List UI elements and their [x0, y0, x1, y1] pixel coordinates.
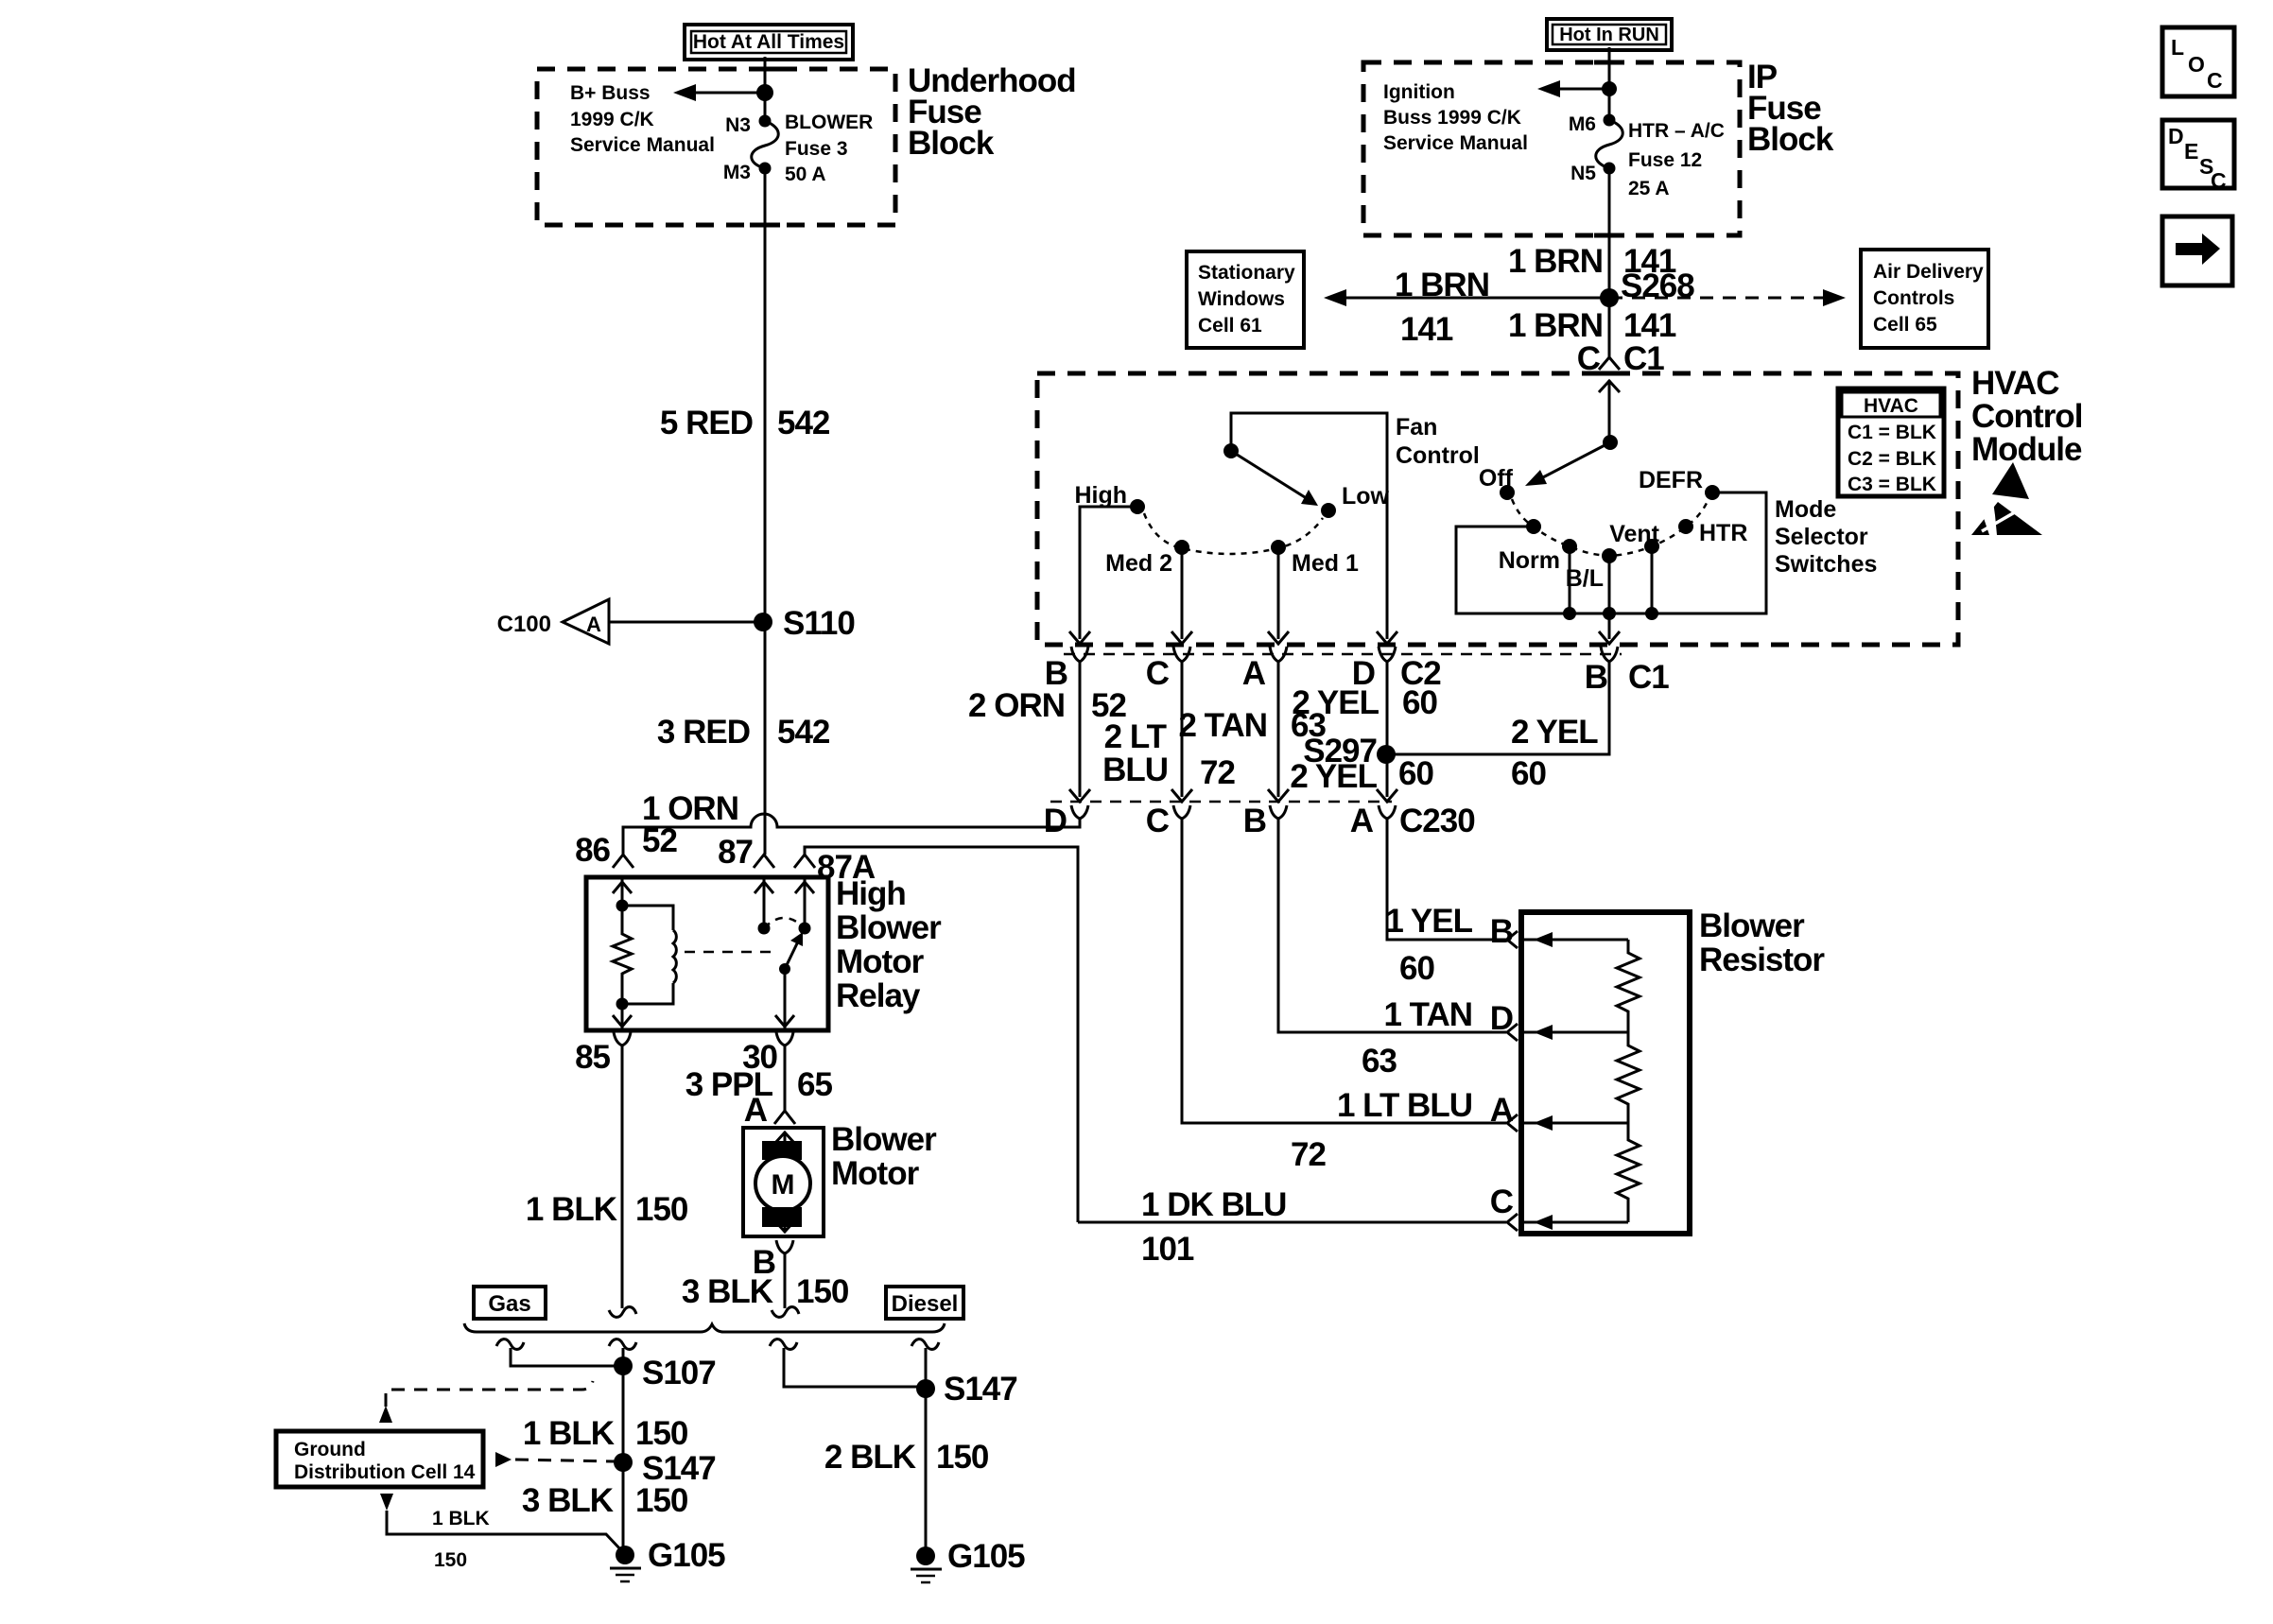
wire 3 BLK 150 motor B down [682, 1253, 849, 1310]
relay actuation dashed link [685, 951, 773, 954]
label Mode Selector Switches [1775, 496, 1877, 578]
resistor element R1 [1617, 940, 1640, 1032]
wire diesel right to S147 [925, 1348, 928, 1389]
splice S107 [614, 1355, 716, 1391]
svg-text:Fan: Fan [1396, 414, 1437, 441]
wire Vent drop [1645, 546, 1658, 620]
svg-text:C: C [2211, 168, 2227, 193]
pin B C1 label [1585, 647, 1670, 696]
svg-text:60: 60 [1511, 755, 1546, 792]
svg-text:2 YEL: 2 YEL [1290, 758, 1377, 795]
svg-text:Control: Control [1396, 442, 1480, 469]
pin C blower resistor [1490, 1183, 1518, 1231]
node Hot At All Times [685, 25, 853, 60]
relay internal resistor [613, 906, 632, 1004]
svg-text:1 YEL: 1 YEL [1385, 903, 1472, 940]
wire Med 1 to pin A [1277, 547, 1280, 639]
svg-text:A: A [1350, 803, 1374, 839]
svg-text:B+ Buss: B+ Buss [570, 82, 651, 104]
node Diesel tag [886, 1287, 963, 1319]
wire run feed into IP fuse block [1608, 47, 1611, 89]
svg-text:1 BLK: 1 BLK [523, 1415, 615, 1452]
svg-text:Blower: Blower [836, 909, 942, 946]
pin D C2 label [1352, 647, 1442, 692]
svg-text:High: High [836, 875, 906, 912]
fan switch detent dashed arc [1144, 513, 1323, 554]
svg-text:1 BLK: 1 BLK [526, 1191, 617, 1228]
svg-text:63: 63 [1362, 1043, 1397, 1080]
svg-text:Fuse 3: Fuse 3 [785, 138, 848, 160]
mode contact rect tap [1526, 519, 1541, 534]
resistor internal feed C [1521, 1215, 1628, 1230]
svg-text:Cell 61: Cell 61 [1198, 315, 1262, 337]
resistor element R3 [1617, 1123, 1640, 1222]
wire break hook diesel left [770, 1339, 797, 1350]
mode switch detent dashed arc [1512, 499, 1709, 556]
svg-text:Hot In RUN: Hot In RUN [1559, 25, 1659, 45]
svg-text:Control: Control [1971, 398, 2082, 435]
svg-text:86: 86 [575, 832, 610, 869]
svg-text:N3: N3 [725, 114, 751, 136]
svg-text:M3: M3 [723, 162, 751, 183]
relay coil branch wire 86 side [613, 877, 632, 912]
wire 3 PPL 65 relay 30 to blower motor A [685, 1045, 833, 1111]
svg-text:1 BRN: 1 BRN [1508, 307, 1603, 344]
svg-text:Fuse 12: Fuse 12 [1628, 149, 1702, 171]
splice S110 [754, 605, 855, 642]
svg-text:65: 65 [797, 1066, 832, 1103]
label High Blower Motor Relay [836, 875, 942, 1014]
splice S147 diesel [916, 1371, 1017, 1408]
fan contact High [1074, 482, 1145, 514]
svg-text:1 DK BLU: 1 DK BLU [1141, 1186, 1286, 1223]
pin B C2 [1045, 647, 1088, 692]
wire High to pin B [1080, 507, 1137, 639]
svg-text:DEFR: DEFR [1639, 467, 1703, 493]
wire 2 YEL 60 fan control [1292, 662, 1437, 797]
pin 87A [794, 849, 876, 886]
svg-text:Ignition: Ignition [1383, 81, 1455, 103]
fan switch wiper arm [1231, 451, 1318, 506]
wire 1 BRN 141 fuse to S268 [1508, 168, 1676, 298]
splice S147 gas [614, 1450, 716, 1487]
wire 2 ORN 52 [968, 662, 1126, 797]
wire junction to fuse terminal M6 [1608, 89, 1611, 120]
svg-text:B: B [1585, 659, 1607, 696]
ESD sensitive symbol [1971, 462, 2042, 535]
wire break hook motor B end [772, 1307, 799, 1318]
svg-text:E: E [2184, 139, 2198, 164]
svg-text:Norm: Norm [1499, 547, 1560, 574]
svg-text:D: D [1044, 803, 1067, 839]
junction at fuse 3 input [756, 84, 773, 101]
legend next arrow box [2162, 216, 2232, 285]
svg-text:Cell 65: Cell 65 [1873, 314, 1937, 336]
brace gas diesel split [464, 1323, 945, 1332]
wire break hook gas right [609, 1339, 636, 1350]
pin D C230 [1044, 803, 1088, 839]
svg-text:C1: C1 [1628, 659, 1669, 696]
svg-text:Distribution Cell 14: Distribution Cell 14 [294, 1461, 476, 1483]
svg-text:C: C [1146, 655, 1170, 692]
node B+ Buss arrow [570, 82, 765, 156]
svg-text:1 LT BLU: 1 LT BLU [1337, 1087, 1472, 1124]
connector C C1 inline [1577, 336, 1665, 442]
pin A blower motor [744, 1092, 795, 1129]
svg-text:Service Manual: Service Manual [570, 134, 715, 156]
svg-text:60: 60 [1402, 684, 1437, 721]
wire 1 BLK 150 ground cell to G105 [387, 1508, 622, 1571]
svg-text:Air Delivery: Air Delivery [1873, 261, 1984, 283]
label HVAC Control Module [1971, 365, 2082, 468]
splice S268 [1600, 268, 1694, 307]
mode contact HTR [1678, 519, 1747, 546]
svg-text:Resistor: Resistor [1699, 942, 1825, 978]
IP fuse block dashed box [1363, 62, 1740, 235]
pin 86 [575, 832, 633, 869]
relay coil L1 [622, 906, 676, 1004]
svg-text:542: 542 [777, 714, 830, 751]
pin A C230 label [1350, 803, 1475, 839]
mode contact B/L [1566, 548, 1617, 592]
svg-text:M6: M6 [1569, 113, 1596, 135]
svg-text:D: D [2168, 124, 2184, 148]
HVAC control module dashed box [1037, 373, 1958, 645]
wire B/L common to pin B [1599, 556, 1620, 644]
motor M1 Blower Motor [743, 1128, 824, 1236]
pin B C230 [1243, 803, 1287, 839]
connector C2 dashed row [1064, 653, 1622, 656]
wire 1 LT BLU 72 C230-C to resistor A [1182, 819, 1506, 1173]
label Blower Motor [831, 1121, 937, 1192]
wire 2 YEL 60 S297 to C1-B [1386, 662, 1609, 792]
pin D blower resistor [1490, 1000, 1518, 1041]
svg-text:2 YEL: 2 YEL [1511, 714, 1598, 751]
svg-text:141: 141 [1623, 307, 1676, 344]
wire 2 TAN 63 [1178, 662, 1326, 797]
fan control feed wire from C2-D [1231, 413, 1387, 639]
mode selector feed wire [1608, 392, 1611, 442]
wire break hook gas left [496, 1339, 524, 1350]
ground G105 diesel [911, 1538, 1025, 1582]
ground distribution dashed ref to S147 [495, 1452, 615, 1467]
svg-text:A: A [586, 613, 601, 636]
svg-text:542: 542 [777, 405, 830, 441]
svg-text:Blower: Blower [831, 1121, 937, 1158]
svg-text:150: 150 [635, 1191, 688, 1228]
arrows at HVAC box bottom fan side [1069, 631, 1397, 644]
svg-text:Module: Module [1971, 431, 2082, 468]
svg-text:Med 2: Med 2 [1105, 550, 1172, 577]
svg-text:N5: N5 [1570, 163, 1596, 184]
label Blower Resistor [1699, 907, 1825, 978]
relay contact 87A stub [795, 877, 814, 935]
wire 1 BRN 141 S268 to C1 [1508, 298, 1676, 354]
arrows into C230 [1069, 789, 1397, 802]
wire junction to fuse terminal N3 [764, 93, 767, 121]
connector C230 dashed row [1050, 801, 1392, 803]
fan contact Med 2 [1105, 540, 1189, 577]
HVAC connector color table [1838, 389, 1944, 496]
wire Med 2 to pin C [1181, 547, 1184, 639]
svg-text:Relay: Relay [836, 977, 921, 1014]
relay movable contact arm [779, 932, 803, 975]
svg-text:S147: S147 [944, 1371, 1017, 1408]
svg-text:2 YEL: 2 YEL [1292, 684, 1379, 721]
svg-text:S110: S110 [783, 605, 855, 642]
svg-text:52: 52 [642, 822, 677, 859]
mode switch wiper arm [1525, 442, 1610, 486]
svg-text:2 LT: 2 LT [1104, 718, 1167, 755]
svg-text:Service Manual: Service Manual [1383, 132, 1528, 154]
svg-text:5 RED: 5 RED [660, 405, 753, 441]
svg-text:C230: C230 [1399, 803, 1475, 839]
svg-text:Low: Low [1342, 483, 1390, 510]
svg-text:Motor: Motor [831, 1155, 920, 1192]
svg-text:Windows: Windows [1198, 288, 1285, 310]
svg-text:HTR – A/C: HTR – A/C [1628, 120, 1725, 142]
svg-text:Hot At All Times: Hot At All Times [693, 31, 844, 53]
connector C100 triangle A [497, 599, 763, 644]
svg-text:3 BLK: 3 BLK [682, 1273, 773, 1310]
wire 1 TAN 63 C230-B to resistor D [1278, 819, 1506, 1080]
mode switch bus rectangle [1456, 492, 1766, 613]
svg-text:141: 141 [1400, 311, 1453, 348]
wire 2 BLK 150 S147 to G105 diesel [824, 1389, 989, 1556]
svg-text:B/L: B/L [1566, 565, 1604, 592]
pin A C2 [1242, 647, 1287, 692]
svg-text:Gas: Gas [488, 1291, 530, 1317]
resistor element R2 [1617, 1032, 1640, 1123]
underhood fuse block dashed box [537, 69, 895, 225]
svg-text:G105: G105 [648, 1537, 725, 1574]
svg-text:72: 72 [1200, 754, 1235, 791]
node Hot In RUN [1547, 19, 1672, 50]
svg-text:60: 60 [1399, 950, 1434, 987]
node Ignition Buss arrow [1383, 80, 1609, 154]
wire gas main to S107 [622, 1348, 625, 1366]
svg-text:C2 = BLK: C2 = BLK [1848, 448, 1936, 470]
svg-text:101: 101 [1141, 1231, 1194, 1268]
wire Norm drop [1563, 546, 1576, 620]
svg-text:BLU: BLU [1102, 752, 1168, 788]
legend LOC box [2162, 27, 2234, 96]
svg-text:A: A [744, 1092, 768, 1129]
svg-text:C: C [2207, 68, 2223, 93]
svg-text:Block: Block [1747, 121, 1834, 158]
pin 30 [742, 1032, 793, 1076]
svg-text:85: 85 [575, 1039, 610, 1076]
svg-text:Block: Block [908, 125, 995, 162]
fan contact Low [1321, 483, 1390, 518]
svg-text:HVAC: HVAC [1971, 365, 2059, 402]
svg-text:3 BLK: 3 BLK [522, 1482, 614, 1519]
svg-text:1 BRN: 1 BRN [1395, 267, 1489, 303]
mode contact Off [1479, 465, 1515, 500]
svg-text:1999 C/K: 1999 C/K [570, 109, 654, 130]
wire 1 DK BLU 101 relay 87A to resistor C [1078, 1186, 1506, 1268]
svg-text:O: O [2188, 52, 2205, 77]
svg-text:150: 150 [936, 1439, 989, 1476]
svg-text:1 BLK: 1 BLK [432, 1508, 490, 1529]
svg-text:Med 1: Med 1 [1292, 550, 1359, 577]
box Air Delivery Controls Cell 65 [1861, 250, 1988, 348]
node Gas tag [474, 1287, 546, 1319]
relay K1 High Blower Motor Relay box [586, 877, 828, 1030]
pin B blower motor [753, 1240, 793, 1281]
svg-text:Vent: Vent [1609, 521, 1659, 547]
svg-text:L: L [2171, 35, 2184, 60]
svg-text:Diesel: Diesel [892, 1291, 959, 1317]
ground G105 gas [610, 1537, 725, 1581]
wire 3 RED 542 S110 to relay pin 87 [657, 622, 830, 855]
label Underhood Fuse Block [908, 62, 1076, 162]
wire 5 RED 542 fuse output to S110 [660, 168, 830, 622]
svg-text:Switches: Switches [1775, 551, 1877, 578]
svg-text:2 BLK: 2 BLK [824, 1439, 916, 1476]
svg-text:HTR: HTR [1699, 520, 1747, 546]
svg-text:Controls: Controls [1873, 287, 1954, 309]
wire battery feed into fuse block [764, 57, 767, 93]
wire gas branch to S107 [511, 1348, 623, 1366]
resistor pack box [1521, 912, 1690, 1234]
svg-text:2 TAN: 2 TAN [1178, 707, 1267, 744]
legend DESC box [2162, 120, 2234, 193]
splice S297 [1290, 733, 1433, 795]
relay coil lower junction [613, 998, 632, 1031]
mode contact DEFR [1639, 467, 1720, 500]
fan switch pivot [1223, 443, 1239, 458]
svg-text:60: 60 [1398, 755, 1433, 792]
svg-text:C100: C100 [497, 612, 551, 637]
wire diesel branch to S147 [784, 1348, 926, 1387]
junction at fuse 12 input [1602, 81, 1617, 96]
svg-text:Blower: Blower [1699, 907, 1805, 944]
mode contact Norm [1499, 539, 1577, 574]
svg-text:87: 87 [718, 834, 753, 871]
relay contact 87 stub [755, 877, 773, 935]
svg-text:150: 150 [796, 1273, 849, 1310]
svg-text:High: High [1074, 482, 1127, 509]
box Stationary Windows Cell 61 [1187, 251, 1304, 348]
wire break hook 85 end [609, 1307, 636, 1318]
svg-text:M: M [772, 1169, 795, 1201]
resistor internal feed B [1521, 932, 1628, 947]
svg-text:150: 150 [635, 1482, 688, 1519]
svg-text:C: C [1146, 803, 1170, 839]
svg-text:HVAC: HVAC [1864, 395, 1918, 417]
svg-text:S107: S107 [642, 1355, 716, 1391]
wire 1 BLK 150 S107 to S147 [523, 1366, 688, 1462]
mode contact Vent [1609, 521, 1659, 554]
label Fan Control [1396, 414, 1480, 469]
wire 1 DK BLU from relay pin 87A [805, 847, 1078, 1222]
svg-text:BLOWER: BLOWER [785, 112, 873, 133]
svg-text:C3 = BLK: C3 = BLK [1848, 474, 1936, 495]
mode switch pivot [1603, 435, 1618, 450]
fuse F3 BLOWER 50A [723, 112, 874, 185]
svg-text:A: A [1490, 1092, 1514, 1129]
fan contact Med 1 [1271, 540, 1359, 577]
wire 1 YEL 60 C230-A to resistor B [1385, 819, 1506, 987]
relay common wire to pin 30 [775, 969, 794, 1030]
svg-text:2 ORN: 2 ORN [968, 687, 1065, 724]
svg-text:Mode: Mode [1775, 496, 1836, 523]
svg-text:1 BRN: 1 BRN [1508, 243, 1603, 280]
pin C C230 [1146, 803, 1190, 839]
pin C C2 [1146, 647, 1190, 692]
wire 3 BLK 150 S147 to G105 [522, 1462, 688, 1550]
svg-text:C: C [1490, 1183, 1514, 1220]
pin 85 [575, 1032, 631, 1076]
pin 87 [718, 834, 774, 871]
ground distribution dashed ref upper [379, 1381, 593, 1423]
box Ground Distribution Cell 14 [276, 1431, 483, 1487]
svg-text:1 TAN: 1 TAN [1383, 996, 1472, 1033]
svg-text:G105: G105 [947, 1538, 1025, 1575]
svg-text:C1 = BLK: C1 = BLK [1848, 422, 1936, 443]
pin B blower resistor [1490, 913, 1518, 950]
svg-text:B: B [1490, 913, 1513, 950]
svg-text:A: A [1242, 655, 1266, 692]
svg-text:150: 150 [635, 1415, 688, 1452]
resistor internal feed A [1521, 1115, 1628, 1131]
svg-text:Ground: Ground [294, 1439, 366, 1460]
fuse F12 HTR-A/C 25A [1569, 113, 1725, 199]
wire break hook diesel right [911, 1339, 939, 1350]
svg-text:25 A: 25 A [1628, 178, 1670, 199]
pin A blower resistor [1490, 1092, 1518, 1132]
svg-text:150: 150 [434, 1549, 467, 1571]
wire 1 ORN 52 C230-D to relay pin 86 [623, 790, 1080, 859]
svg-text:3 RED: 3 RED [657, 714, 750, 751]
wire 1 BRN 141 S268 to stationary windows [1324, 267, 1609, 348]
svg-text:Motor: Motor [836, 943, 925, 980]
svg-text:Stationary: Stationary [1198, 262, 1295, 284]
svg-text:72: 72 [1291, 1136, 1326, 1173]
label IP Fuse Block [1747, 59, 1834, 158]
dashed ref wire to air delivery controls [1609, 289, 1846, 306]
svg-text:50 A: 50 A [785, 164, 826, 185]
ground distribution dashed ref lower arrow [380, 1494, 393, 1511]
relay contact dashed arc [764, 918, 805, 928]
svg-text:Selector: Selector [1775, 524, 1868, 550]
svg-text:B: B [1243, 803, 1266, 839]
wire 1 BLK 150 relay 85 to gas splice [526, 1045, 688, 1308]
wire 2 LT BLU 72 [1102, 662, 1235, 797]
resistor internal feed D [1521, 1025, 1628, 1040]
svg-text:Buss 1999 C/K: Buss 1999 C/K [1383, 107, 1521, 129]
